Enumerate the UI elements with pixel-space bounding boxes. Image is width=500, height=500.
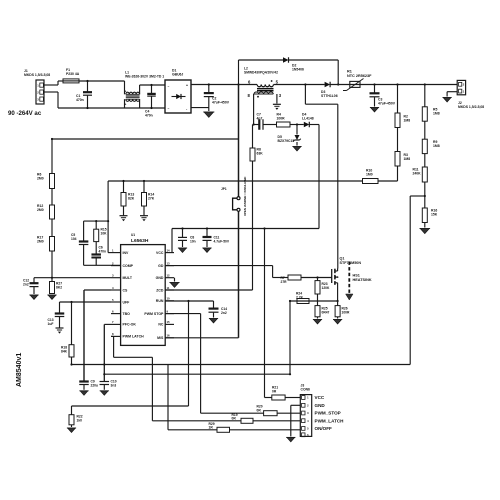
svg-text:RUN: RUN [156,299,164,303]
svg-text:INV: INV [123,251,130,255]
svg-text:SMWD430PQ4/20V/42: SMWD430PQ4/20V/42 [244,70,278,74]
svg-text:8K2: 8K2 [56,285,62,289]
svg-text:ZCD: ZCD [156,288,164,292]
svg-text:104: 104 [71,237,77,241]
svg-text:1k0: 1k0 [77,418,83,422]
svg-text:2.2K: 2.2K [296,295,304,299]
svg-text:1R: 1R [209,426,214,430]
svg-text:1M8: 1M8 [433,144,440,148]
svg-text:UFF: UFF [123,300,131,304]
svg-text:NC: NC [158,323,164,327]
svg-text:100R: 100R [342,310,351,314]
svg-text:GND: GND [156,276,164,280]
svg-text:PWM_STOP: PWM_STOP [315,411,341,416]
svg-text:R1: R1 [347,70,352,74]
svg-text:LL4148: LL4148 [302,117,314,121]
svg-text:PWM STOP: PWM STOP [144,312,164,316]
svg-text:0R: 0R [232,417,237,421]
svg-text:WE-2626-302V 3M2-TD 1: WE-2626-302V 3M2-TD 1 [125,75,164,79]
svg-text:84K: 84K [61,349,68,353]
svg-text:STF7NM50N: STF7NM50N [340,261,362,265]
svg-text:OPEN JUMPER = INSULATED: OPEN JUMPER = INSULATED [243,177,247,216]
svg-text:COMP: COMP [123,264,134,268]
svg-text:0R: 0R [257,408,262,412]
svg-text:MKDS 1,5/2-5,08: MKDS 1,5/2-5,08 [458,105,484,109]
svg-text:~: ~ [168,85,170,89]
svg-text:15: 15 [167,320,171,324]
svg-text:13: 13 [167,261,171,265]
svg-text:GND: GND [315,403,326,408]
svg-text:U1: U1 [131,233,135,237]
svg-text:+: + [186,84,188,88]
svg-text:10: 10 [167,297,171,301]
svg-text:2M0: 2M0 [37,240,44,244]
svg-text:2n2: 2n2 [221,311,227,315]
svg-text:27K: 27K [148,197,155,201]
svg-text:HEATSINK: HEATSINK [353,278,372,282]
svg-text:GBU6J: GBU6J [172,73,183,77]
svg-text:M/S: M/S [157,336,164,340]
svg-text:NTC 2R5623F: NTC 2R5623F [347,74,372,78]
svg-text:470n: 470n [145,114,153,118]
svg-text:4.7uF-50V: 4.7uF-50V [214,239,230,243]
svg-text:63K: 63K [257,152,264,156]
svg-text:STTH1L06: STTH1L06 [321,94,338,98]
svg-text:~: ~ [168,107,170,111]
svg-text:10n: 10n [190,239,196,243]
svg-text:11: 11 [167,286,170,290]
svg-text:0R47: 0R47 [322,310,330,314]
svg-text:4n7: 4n7 [257,117,263,121]
svg-text:1M8: 1M8 [404,119,411,123]
svg-text:1uF: 1uF [48,322,54,326]
svg-text:CS: CS [123,288,129,292]
svg-text:PFC-OK: PFC-OK [123,323,137,327]
svg-text:ON/OFF: ON/OFF [315,426,333,431]
svg-text:90 -264V ac: 90 -264V ac [8,110,42,117]
svg-text:1M0: 1M0 [366,173,373,177]
svg-text:10K: 10K [101,231,108,235]
svg-text:AM8540v1: AM8540v1 [16,353,23,387]
svg-text:47uF-450V: 47uF-450V [378,102,396,106]
svg-text:2n2: 2n2 [23,282,29,286]
svg-text:120K: 120K [322,286,331,290]
svg-text:TBO: TBO [123,312,131,316]
svg-text:JP1: JP1 [221,187,227,191]
svg-text:VCC: VCC [315,395,325,400]
svg-text:MULT: MULT [123,276,133,280]
svg-text:47uF-450V: 47uF-450V [212,101,230,105]
svg-text:2M0: 2M0 [37,208,44,212]
svg-text:GD: GD [158,264,164,268]
svg-text:PWM_LATCH: PWM_LATCH [315,418,345,423]
svg-text:14: 14 [167,248,171,252]
svg-text:470n: 470n [76,98,84,102]
svg-text:3n3: 3n3 [111,383,117,387]
svg-text:CON6: CON6 [301,388,311,392]
svg-text:27R: 27R [281,280,288,284]
svg-text:12: 12 [167,274,171,278]
svg-text:PWM LATCH: PWM LATCH [123,335,145,339]
svg-text:0R: 0R [272,389,277,393]
svg-text:220u: 220u [91,383,99,387]
svg-text:L6563H: L6563H [131,238,149,244]
svg-text:15K: 15K [431,213,438,217]
svg-text:BZX79C15: BZX79C15 [278,139,295,143]
svg-text:P230 4A: P230 4A [66,72,80,76]
svg-text:16: 16 [167,334,171,338]
svg-text:1N5406: 1N5406 [292,68,304,72]
svg-text:VCC: VCC [156,251,164,255]
svg-text:MKDS 1,5/3-5,08: MKDS 1,5/3-5,08 [24,73,50,77]
svg-text:HS1: HS1 [353,274,360,278]
svg-text:1M8: 1M8 [404,157,411,161]
svg-text:240K: 240K [413,172,422,176]
svg-text:82K: 82K [128,197,135,201]
svg-text:1M8: 1M8 [433,112,440,116]
svg-text:100R: 100R [277,117,286,121]
svg-text:470n: 470n [99,249,107,253]
svg-text:2M0: 2M0 [37,177,44,181]
